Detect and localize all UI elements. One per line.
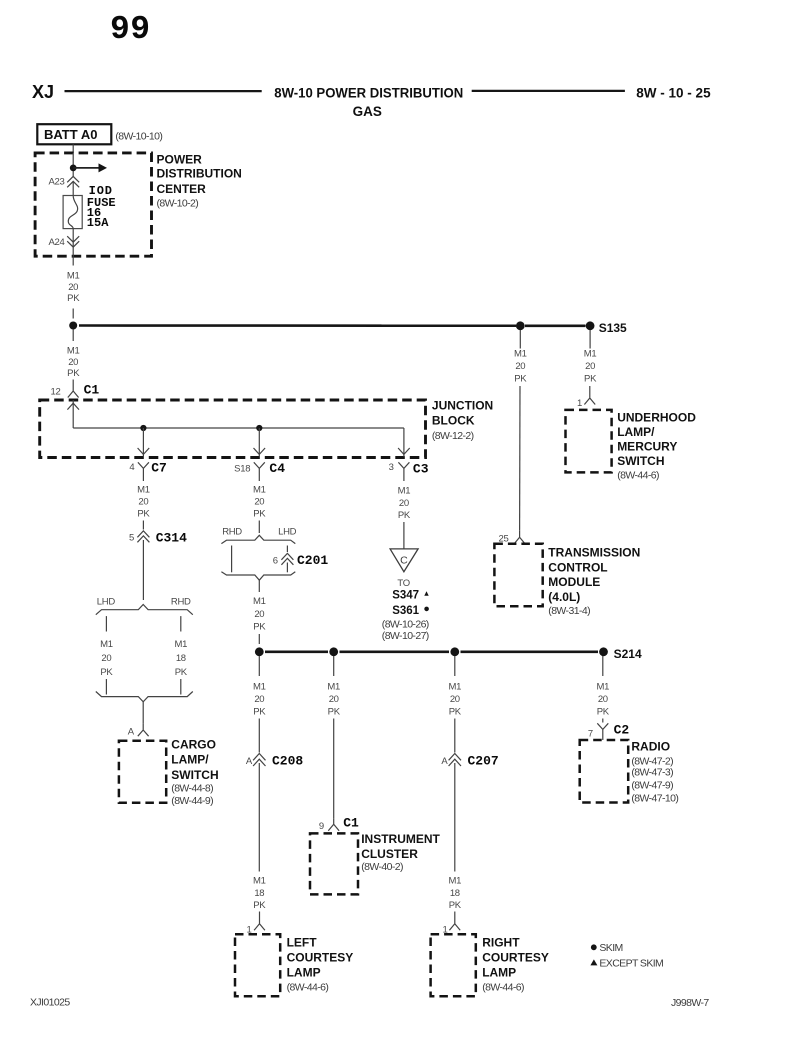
svg-text:M1: M1 bbox=[448, 876, 461, 887]
svg-text:LAMP: LAMP bbox=[482, 966, 516, 980]
svg-text:99: 99 bbox=[110, 11, 151, 48]
year stamp 99 bbox=[110, 11, 151, 48]
bus2 wire to S214 bbox=[265, 650, 598, 653]
svg-text:LHD: LHD bbox=[97, 597, 116, 608]
svg-text:20: 20 bbox=[598, 694, 608, 705]
wire BATT A0 to PDC bbox=[72, 144, 74, 153]
connector label C314 bbox=[156, 531, 187, 546]
junction block label bbox=[432, 398, 493, 442]
wire label M1 20 PK (underhood branch) bbox=[584, 349, 597, 385]
connector pin 25 TCM bbox=[514, 531, 525, 544]
svg-text:PK: PK bbox=[137, 509, 150, 520]
off-page connector triangle C bbox=[390, 549, 418, 572]
svg-text:UNDERHOOD: UNDERHOOD bbox=[617, 411, 696, 425]
svg-text:RHD: RHD bbox=[171, 597, 191, 608]
instrument cluster box bbox=[310, 833, 358, 894]
connector label C7 bbox=[151, 461, 167, 476]
svg-text:CENTER: CENTER bbox=[157, 182, 207, 196]
svg-text:SWITCH: SWITCH bbox=[617, 454, 664, 468]
svg-text:POWER: POWER bbox=[157, 152, 203, 166]
power distribution center dashed box bbox=[35, 153, 151, 256]
svg-text:M1: M1 bbox=[253, 682, 266, 693]
svg-text:C208: C208 bbox=[272, 754, 303, 769]
svg-text:(8W-44-6): (8W-44-6) bbox=[482, 982, 524, 994]
wire to C207 bbox=[454, 719, 456, 753]
connector pin 1 right lamp bbox=[449, 917, 460, 930]
battery feed box BATT A0 bbox=[37, 124, 111, 144]
svg-text:15A: 15A bbox=[87, 216, 109, 230]
wire label M1 20 PK (radio) bbox=[596, 682, 609, 718]
junction block dashed box bbox=[40, 400, 426, 458]
svg-text:MERCURY: MERCURY bbox=[617, 440, 677, 454]
wire C208 to left courtesy lamp bbox=[258, 763, 260, 872]
svg-text:(8W-47-10): (8W-47-10) bbox=[631, 793, 678, 805]
wire LHD branch upper bbox=[286, 546, 288, 553]
svg-text:M1: M1 bbox=[100, 639, 113, 650]
svg-text:(8W-44-6): (8W-44-6) bbox=[617, 470, 659, 482]
splice ref S361 with dot marker bbox=[392, 605, 429, 617]
svg-text:18: 18 bbox=[254, 888, 264, 899]
svg-text:PK: PK bbox=[175, 667, 188, 678]
merge brace bottom (cargo branches) bbox=[96, 692, 193, 702]
svg-text:PK: PK bbox=[328, 707, 341, 718]
svg-text:M1: M1 bbox=[253, 485, 266, 496]
bus wire to S135 bbox=[79, 324, 586, 327]
wire into bus splice bbox=[72, 309, 74, 319]
svg-text:M1: M1 bbox=[253, 876, 266, 887]
svg-text:20: 20 bbox=[254, 694, 264, 705]
pin label 4 bbox=[129, 462, 134, 473]
svg-text:S361: S361 bbox=[392, 605, 419, 617]
connector C4 pin S18 bbox=[254, 462, 265, 481]
svg-text:PK: PK bbox=[597, 707, 610, 718]
wire label M1 20 PK (C4 branch) bbox=[253, 485, 266, 520]
svg-text:BLOCK: BLOCK bbox=[432, 414, 475, 428]
transmission control module box bbox=[494, 544, 542, 607]
svg-text:A23: A23 bbox=[48, 176, 64, 187]
svg-text:LHD: LHD bbox=[278, 527, 297, 538]
svg-text:C201: C201 bbox=[297, 553, 328, 568]
JB exit wire C3 with down arrow bbox=[398, 428, 410, 457]
connector label C201 bbox=[297, 553, 328, 568]
svg-text:CLUSTER: CLUSTER bbox=[361, 847, 418, 861]
wire into bus2 bbox=[258, 634, 260, 644]
connector C7 pin 4 bbox=[138, 462, 149, 481]
wire label M1 20 PK (C7 branch) bbox=[137, 485, 150, 520]
svg-text:RADIO: RADIO bbox=[631, 740, 670, 754]
pin label A C208 bbox=[246, 756, 253, 767]
svg-text:PK: PK bbox=[253, 900, 266, 911]
svg-text:DISTRIBUTION: DISTRIBUTION bbox=[157, 166, 242, 180]
svg-text:A: A bbox=[246, 756, 253, 767]
pin label 1 left lamp bbox=[247, 925, 252, 936]
connector C2 pin 7 radio bbox=[597, 723, 608, 740]
footer drawing number XJI01025 bbox=[30, 997, 70, 1009]
svg-text:C4: C4 bbox=[269, 461, 285, 476]
svg-text:(8W-44-8): (8W-44-8) bbox=[171, 782, 213, 794]
wire into left lamp connector bbox=[259, 912, 261, 918]
pin label S18 bbox=[234, 463, 250, 474]
pin label A C207 bbox=[441, 756, 448, 767]
svg-text:C1: C1 bbox=[84, 383, 100, 398]
svg-text:M1: M1 bbox=[174, 639, 187, 650]
svg-text:GAS: GAS bbox=[353, 104, 382, 119]
header subtitle GAS bbox=[353, 104, 382, 119]
fuse IOD 16 15A bbox=[63, 196, 82, 229]
wire LHD branch lower bbox=[105, 679, 107, 695]
wire label M1 20 PK (PDC to splice) bbox=[67, 271, 80, 304]
underhood lamp mercury switch box bbox=[566, 410, 612, 473]
pin label 6 bbox=[273, 556, 278, 567]
svg-text:J998W-7: J998W-7 bbox=[671, 997, 709, 1009]
connector A23 double chevron bbox=[67, 176, 79, 187]
svg-text:8W - 10 - 25: 8W - 10 - 25 bbox=[636, 85, 711, 100]
svg-text:CARGO: CARGO bbox=[171, 737, 216, 751]
svg-text:XJ: XJ bbox=[32, 82, 54, 102]
svg-text:M1: M1 bbox=[253, 596, 266, 607]
pin label 3 bbox=[389, 462, 394, 473]
svg-text:C314: C314 bbox=[156, 531, 187, 546]
pin label 25 TCM bbox=[499, 534, 509, 545]
connector A24 double chevron bbox=[67, 236, 79, 247]
svg-text:XJI01025: XJI01025 bbox=[30, 997, 70, 1009]
connector label C2 bbox=[614, 723, 630, 738]
splice node bus2 mid (instrument cluster) bbox=[329, 647, 338, 656]
svg-text:M1: M1 bbox=[67, 271, 80, 282]
JB exit wire C7 with down arrow bbox=[138, 428, 150, 457]
wire C7 to C314 bbox=[142, 521, 144, 530]
svg-text:BATT A0: BATT A0 bbox=[44, 127, 97, 142]
svg-text:PK: PK bbox=[67, 293, 80, 304]
connector C201 double chevron pin 6 bbox=[281, 553, 293, 564]
svg-text:(8W-12-2): (8W-12-2) bbox=[432, 430, 474, 442]
header model label XJ bbox=[32, 82, 54, 102]
arrow continuation right bbox=[73, 163, 107, 172]
svg-text:20: 20 bbox=[68, 282, 78, 293]
wire into radio connector bbox=[602, 719, 604, 723]
svg-text:M1: M1 bbox=[448, 682, 461, 693]
legend EXCEPT SKIM triangle marker bbox=[590, 957, 663, 969]
wire label M1 20 PK (LHD) bbox=[100, 639, 113, 678]
wire to instrument cluster bbox=[333, 719, 335, 819]
svg-text:LAMP/: LAMP/ bbox=[171, 753, 209, 767]
connector C1 pin 12 bbox=[68, 383, 79, 398]
wire label M1 18 PK (left lamp) bbox=[253, 876, 266, 912]
svg-text:INSTRUMENT: INSTRUMENT bbox=[361, 832, 440, 846]
svg-text:18: 18 bbox=[176, 653, 186, 664]
svg-text:(8W-47-9): (8W-47-9) bbox=[631, 780, 673, 792]
wire RHD direct branch bbox=[231, 546, 233, 573]
wire LHD branch lower bbox=[286, 563, 288, 573]
svg-text:LAMP: LAMP bbox=[287, 966, 321, 980]
svg-text:1: 1 bbox=[577, 398, 582, 409]
connector C1 pin 9 instrument cluster bbox=[328, 819, 339, 831]
svg-text:S214: S214 bbox=[614, 647, 642, 661]
splice S135 bbox=[586, 321, 627, 335]
connector C3 pin 3 bbox=[398, 462, 409, 481]
svg-text:9: 9 bbox=[319, 821, 324, 832]
wire into C1 bbox=[72, 380, 74, 384]
svg-text:PK: PK bbox=[449, 707, 462, 718]
left courtesy lamp box bbox=[235, 934, 280, 996]
wire label M1 18 PK (right lamp) bbox=[448, 876, 461, 912]
wire label M1 20 PK (C3 branch) bbox=[398, 486, 411, 521]
svg-text:(8W-10-27): (8W-10-27) bbox=[382, 630, 429, 642]
JB splice node C7 bbox=[140, 425, 146, 431]
svg-text:C7: C7 bbox=[151, 461, 167, 476]
wire bus2 to C207 branch bbox=[454, 656, 456, 676]
svg-text:C3: C3 bbox=[413, 462, 429, 477]
wire C314 to LHD/RHD split bbox=[142, 540, 144, 600]
svg-text:(8W-10-10): (8W-10-10) bbox=[115, 131, 162, 143]
connector label C1 instrument cluster bbox=[343, 816, 359, 831]
label RHD right branch bbox=[171, 597, 191, 608]
ref (8W-10-27) bbox=[382, 630, 429, 642]
pin label A24 bbox=[48, 237, 64, 248]
merge brace bottom (C201 branches) bbox=[221, 572, 295, 580]
svg-text:M1: M1 bbox=[67, 346, 80, 357]
svg-text:PK: PK bbox=[100, 667, 113, 678]
wire to C208 bbox=[258, 719, 260, 753]
wire C4 to RHD/LHD split bbox=[258, 521, 260, 534]
svg-text:C2: C2 bbox=[614, 723, 630, 738]
JB exit wire C4 with down arrow bbox=[254, 428, 266, 457]
JB splice node C4 bbox=[256, 425, 262, 431]
pin label 7 bbox=[588, 728, 593, 739]
svg-text:PK: PK bbox=[449, 900, 462, 911]
connector label C3 bbox=[413, 462, 429, 477]
svg-text:PK: PK bbox=[253, 622, 266, 633]
wire label M1 18 PK (RHD) bbox=[174, 639, 187, 678]
splice ref S347 with triangle marker bbox=[392, 590, 429, 602]
pin label 12 bbox=[51, 387, 61, 398]
footer sheet number J998W-7 bbox=[671, 997, 709, 1009]
svg-text:SKIM: SKIM bbox=[599, 942, 622, 954]
svg-text:(8W-44-6): (8W-44-6) bbox=[287, 982, 329, 994]
svg-text:6: 6 bbox=[273, 556, 278, 567]
radio box bbox=[580, 740, 629, 803]
svg-text:PK: PK bbox=[514, 374, 527, 385]
wire C3 to triangle bbox=[403, 522, 405, 549]
svg-text:12: 12 bbox=[51, 387, 61, 398]
underhood lamp label bbox=[617, 411, 696, 482]
header page number 8W - 10 - 25 bbox=[636, 85, 711, 100]
wire A23 to fuse bbox=[72, 181, 74, 195]
svg-text:TO: TO bbox=[397, 578, 409, 589]
svg-text:20: 20 bbox=[138, 497, 148, 508]
connector label C207 bbox=[468, 754, 499, 769]
svg-text:8W-10 POWER DISTRIBUTION: 8W-10 POWER DISTRIBUTION bbox=[274, 85, 463, 100]
split brace top (cargo branches) bbox=[96, 605, 193, 615]
legend SKIM dot marker bbox=[591, 942, 623, 954]
wire S214 to radio bbox=[602, 656, 604, 676]
svg-text:S135: S135 bbox=[599, 321, 627, 335]
svg-text:PK: PK bbox=[253, 509, 266, 520]
svg-text:S18: S18 bbox=[234, 463, 250, 474]
underhood branch wire down bbox=[589, 330, 591, 349]
header rule right bbox=[472, 90, 625, 92]
wire JB entry with up arrow bbox=[67, 400, 79, 428]
svg-text:A24: A24 bbox=[48, 237, 64, 248]
wire into right lamp connector bbox=[454, 912, 456, 918]
wire RHD branch lower bbox=[180, 679, 182, 695]
svg-text:A: A bbox=[441, 756, 448, 767]
JB internal bus wire bbox=[73, 427, 404, 429]
wire merge to bus2 bbox=[258, 580, 260, 592]
svg-text:20: 20 bbox=[254, 497, 264, 508]
svg-text:(8W-10-26): (8W-10-26) bbox=[382, 619, 429, 631]
svg-text:PK: PK bbox=[253, 707, 266, 718]
S135 branch wire down (to TCM) bbox=[519, 330, 521, 349]
svg-text:M1: M1 bbox=[584, 349, 597, 360]
connector pin 1 left lamp bbox=[254, 917, 265, 930]
svg-text:JUNCTION: JUNCTION bbox=[432, 398, 493, 412]
wire into underhood connector bbox=[589, 386, 591, 391]
wire bus1 to C1 bbox=[72, 330, 74, 342]
svg-text:5: 5 bbox=[129, 533, 134, 544]
long wire to TCM bbox=[519, 386, 521, 531]
connector label C208 bbox=[272, 754, 303, 769]
svg-text:RIGHT: RIGHT bbox=[482, 936, 520, 950]
svg-text:PK: PK bbox=[67, 368, 80, 379]
svg-text:20: 20 bbox=[515, 361, 525, 372]
connector C207 double chevron pin A bbox=[449, 754, 461, 767]
svg-text:18: 18 bbox=[450, 888, 460, 899]
transmission control module label bbox=[548, 546, 640, 617]
svg-text:SWITCH: SWITCH bbox=[171, 768, 218, 782]
svg-text:COURTESY: COURTESY bbox=[482, 951, 549, 965]
svg-text:M1: M1 bbox=[327, 682, 340, 693]
splice S214 bbox=[599, 647, 642, 661]
wire RHD branch bbox=[180, 616, 182, 631]
svg-text:LEFT: LEFT bbox=[287, 936, 318, 950]
svg-text:M1: M1 bbox=[514, 349, 527, 360]
connector label C4 bbox=[269, 461, 285, 476]
PDC name label bbox=[157, 152, 242, 209]
pin label 5 bbox=[129, 533, 134, 544]
wire bus2 to instrument cluster branch bbox=[333, 656, 335, 676]
wire label M1 20 PK (C208 branch) bbox=[253, 682, 266, 718]
svg-text:RHD: RHD bbox=[222, 527, 242, 538]
svg-text:7: 7 bbox=[588, 728, 593, 739]
wire label M1 20 PK (instrument cluster) bbox=[327, 682, 340, 718]
svg-text:TRANSMISSION: TRANSMISSION bbox=[548, 546, 640, 560]
cargo lamp switch box bbox=[119, 741, 166, 803]
label LHD right bbox=[278, 527, 297, 538]
pin label A23 bbox=[48, 176, 64, 187]
wire PDC entry bbox=[72, 153, 74, 176]
ref (8W-10-10) bbox=[115, 131, 162, 143]
pin label 9 bbox=[319, 821, 324, 832]
right courtesy lamp label bbox=[482, 936, 549, 994]
splice node in PDC bbox=[70, 165, 77, 172]
svg-text:M1: M1 bbox=[398, 486, 411, 497]
wire label M1 20 PK (C207 branch) bbox=[448, 682, 461, 718]
wire fuse to A24 bbox=[72, 229, 74, 247]
pin label 1 underhood bbox=[577, 398, 582, 409]
svg-text:A: A bbox=[128, 727, 135, 738]
wire bus2 to C208 branch bbox=[258, 656, 260, 676]
header title 8W-10 POWER DISTRIBUTION bbox=[274, 85, 463, 100]
svg-text:LAMP/: LAMP/ bbox=[617, 425, 655, 439]
radio label bbox=[631, 740, 678, 805]
svg-text:20: 20 bbox=[68, 357, 78, 368]
wire A24 to PDC bottom bbox=[72, 247, 74, 265]
svg-text:(8W-10-2): (8W-10-2) bbox=[157, 198, 199, 210]
svg-text:CONTROL: CONTROL bbox=[548, 560, 607, 574]
instrument cluster label bbox=[361, 832, 440, 873]
splice node bus2 right (C207) bbox=[450, 647, 459, 656]
connector C314 double chevron pin 5 bbox=[137, 531, 149, 542]
svg-text:M1: M1 bbox=[596, 682, 609, 693]
svg-text:C: C bbox=[400, 555, 408, 567]
svg-text:C207: C207 bbox=[468, 754, 499, 769]
left courtesy lamp label bbox=[287, 936, 354, 994]
svg-text:(8W-40-2): (8W-40-2) bbox=[361, 861, 403, 873]
split brace top (C201 branches) bbox=[221, 535, 295, 543]
splice node bus2 left bbox=[255, 647, 264, 656]
label LHD left branch bbox=[97, 597, 116, 608]
svg-text:EXCEPT SKIM: EXCEPT SKIM bbox=[599, 957, 663, 969]
svg-text:(4.0L): (4.0L) bbox=[548, 590, 580, 604]
svg-text:(8W-44-9): (8W-44-9) bbox=[171, 795, 213, 807]
svg-text:(8W-31-4): (8W-31-4) bbox=[548, 605, 590, 617]
wire label M1 20 PK (to C1) bbox=[67, 346, 80, 379]
svg-text:4: 4 bbox=[129, 462, 134, 473]
splice node bus1 left bbox=[69, 322, 77, 330]
svg-text:MODULE: MODULE bbox=[548, 575, 600, 589]
ref (8W-10-26) bbox=[382, 619, 429, 631]
label TO bbox=[397, 578, 409, 589]
header rule left bbox=[65, 90, 262, 92]
svg-text:20: 20 bbox=[585, 361, 595, 372]
wire label M1 20 PK (to bus2) bbox=[253, 596, 266, 633]
cargo lamp switch label bbox=[171, 737, 218, 807]
svg-text:S347: S347 bbox=[392, 590, 419, 602]
wire merge to cargo connector bbox=[142, 702, 144, 724]
fuse label IOD FUSE 16 15A bbox=[87, 184, 116, 230]
splice node mid bus1 bbox=[516, 321, 525, 330]
svg-text:3: 3 bbox=[389, 462, 394, 473]
connector pin A cargo bbox=[138, 724, 149, 736]
connector label C1 bbox=[84, 383, 100, 398]
svg-text:20: 20 bbox=[101, 653, 111, 664]
pin label 1 right lamp bbox=[443, 925, 448, 936]
svg-text:PK: PK bbox=[398, 510, 411, 521]
right courtesy lamp box bbox=[431, 934, 476, 996]
svg-text:20: 20 bbox=[450, 694, 460, 705]
svg-text:(8W-47-3): (8W-47-3) bbox=[631, 767, 673, 779]
svg-text:COURTESY: COURTESY bbox=[287, 951, 354, 965]
svg-text:20: 20 bbox=[329, 694, 339, 705]
wire C207 to right courtesy lamp bbox=[454, 763, 456, 872]
connector pin 1 underhood bbox=[584, 391, 595, 405]
svg-text:C1: C1 bbox=[343, 816, 359, 831]
svg-text:20: 20 bbox=[254, 609, 264, 620]
wire LHD branch bbox=[105, 616, 107, 631]
svg-text:M1: M1 bbox=[137, 485, 150, 496]
label RHD left bbox=[222, 527, 242, 538]
wire label M1 20 PK (TCM branch) bbox=[514, 349, 527, 385]
pin label A cargo bbox=[128, 727, 135, 738]
svg-text:PK: PK bbox=[584, 374, 597, 385]
svg-text:20: 20 bbox=[399, 498, 409, 509]
connector C208 double chevron pin A bbox=[253, 754, 265, 767]
